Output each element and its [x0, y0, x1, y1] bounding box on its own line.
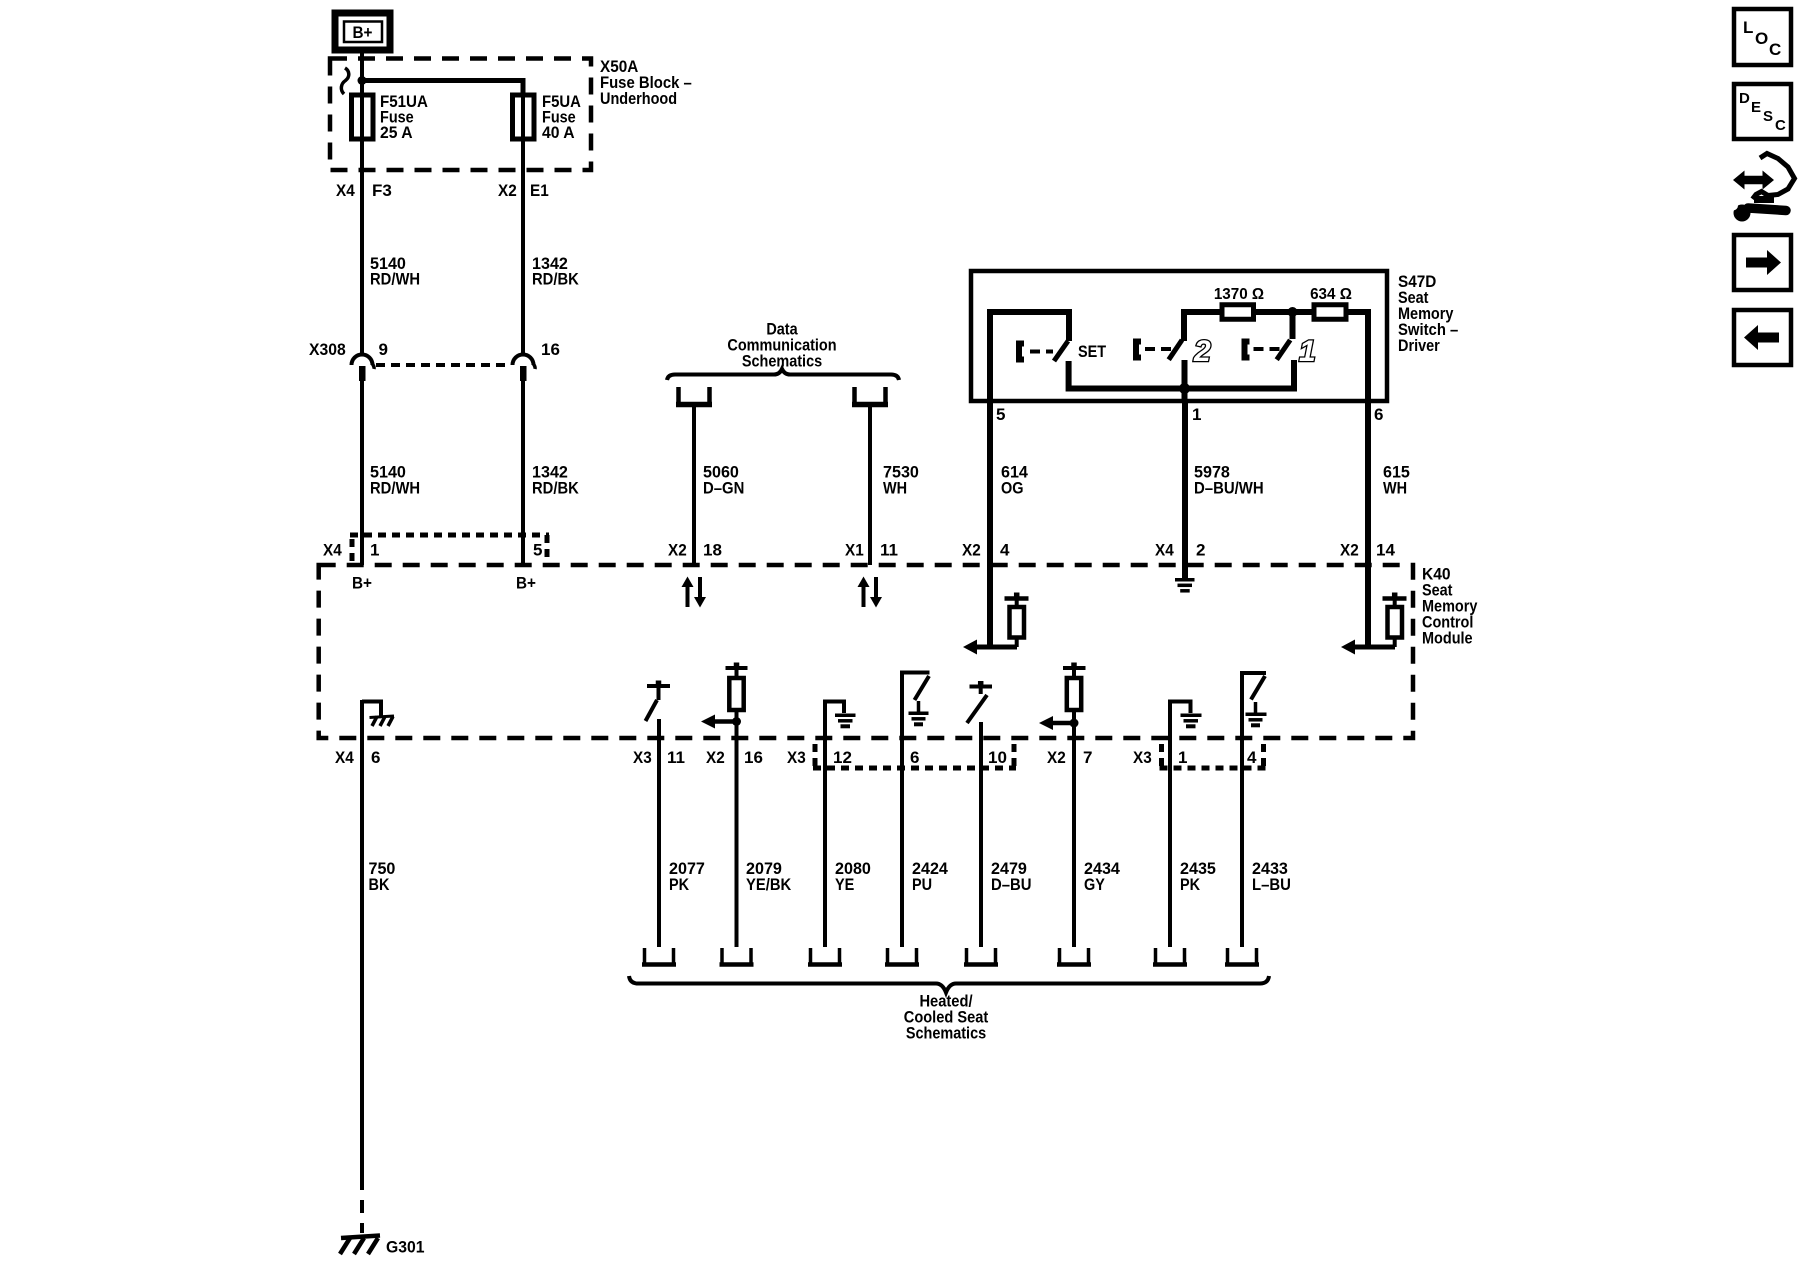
fuse block X50A dashed box: [330, 59, 591, 171]
svg-text:X3: X3: [633, 748, 652, 767]
svg-text:RD/BK: RD/BK: [532, 479, 579, 498]
battery positive B+ symbol: [335, 13, 390, 50]
wire 7530 WH: [870, 405, 919, 565]
svg-text:1: 1: [370, 541, 379, 560]
bottom pin labels X2 16: [706, 748, 763, 767]
svg-text:RD/BK: RD/BK: [532, 270, 579, 289]
dashed connector link X308: [376, 363, 510, 367]
off-page connector 2077: [642, 948, 676, 965]
svg-text:BK: BK: [369, 875, 391, 894]
svg-text:S: S: [1763, 108, 1773, 125]
wire 5140 RD/WH lower: [362, 381, 420, 565]
resistor 1370 ohm: [1214, 286, 1264, 319]
module internal ground X4-6: [362, 700, 394, 740]
svg-text:4: 4: [1000, 541, 1010, 560]
svg-text:D–GN: D–GN: [703, 479, 744, 498]
svg-text:Module: Module: [1422, 629, 1473, 648]
K40 seat memory control module dashed box: [319, 565, 1413, 738]
svg-text:X1: X1: [845, 541, 864, 560]
svg-text:4: 4: [1247, 748, 1257, 767]
pin labels X1 11: [845, 541, 898, 560]
wire 5978 D-BU/WH: [1185, 401, 1264, 565]
switch 1 actuator bracket: [1245, 342, 1250, 358]
fusible hook symbol: [341, 68, 348, 94]
wire 2080 YE: [825, 740, 871, 947]
wire B+ to fuse F51UA: [360, 50, 364, 96]
dashed wire to G301: [360, 1177, 364, 1233]
svg-text:1: 1: [1299, 335, 1316, 368]
svg-text:14: 14: [1376, 541, 1395, 560]
svg-text:PK: PK: [669, 875, 690, 894]
svg-text:RD/WH: RD/WH: [370, 270, 420, 289]
junction node switch bus to pin 1: [1179, 383, 1190, 394]
svg-text:6: 6: [910, 748, 919, 767]
svg-text:18: 18: [703, 541, 722, 560]
svg-text:X2: X2: [962, 541, 981, 560]
svg-text:B+: B+: [352, 574, 372, 593]
wire 2479 D-BU: [981, 740, 1032, 947]
svg-text:E: E: [1751, 99, 1761, 116]
svg-text:G301: G301: [386, 1238, 425, 1257]
svg-text:YE/BK: YE/BK: [746, 875, 792, 894]
seat memory switch S47D box: [971, 271, 1387, 401]
switch 2 lower contact: [1182, 360, 1188, 401]
brace data communication: [667, 369, 899, 380]
label Heated Cooled Seat Schematics: [904, 992, 989, 1043]
module internal ground X3-1: [1170, 700, 1202, 741]
svg-text:16: 16: [744, 748, 763, 767]
svg-text:Underhood: Underhood: [600, 89, 677, 108]
connector X308 pin 9: [352, 340, 388, 381]
svg-text:1: 1: [1192, 405, 1201, 424]
pin labels X4 F3: [336, 181, 392, 200]
svg-text:11: 11: [667, 748, 685, 767]
label S47D Seat Memory Switch - Driver: [1398, 272, 1458, 355]
svg-text:X4: X4: [1155, 541, 1174, 560]
bidirectional arrows at X1-11: [858, 577, 883, 608]
connector X3 dotted group bottom right: [1160, 744, 1266, 768]
pin labels X2 18: [668, 541, 722, 560]
label K40 Seat Memory Control Module: [1422, 565, 1478, 648]
bidirectional arrows at X2-18: [682, 577, 707, 608]
svg-text:O: O: [1755, 29, 1768, 48]
pin labels X4 2: [1155, 541, 1205, 560]
wire 2434 GY: [1074, 740, 1120, 947]
module switch to ground pin 6: [902, 671, 930, 741]
sidebar next arrow button: [1734, 235, 1791, 290]
wire 1342 RD/BK upper: [523, 144, 579, 354]
svg-text:16: 16: [541, 340, 560, 359]
label Data Communication Schematics: [727, 320, 836, 371]
off-page connector 2079: [720, 948, 754, 965]
wire feed to fuse F5UA: [362, 81, 523, 97]
off-page connector 2433: [1225, 948, 1259, 965]
connector X3 dotted group bottom left: [813, 744, 1016, 768]
module driver output X2-4: [963, 565, 1029, 655]
wire 614 OG: [990, 401, 1028, 565]
svg-text:D: D: [1739, 90, 1750, 107]
wire 2079 YE/BK: [737, 740, 792, 947]
svg-text:25 A: 25 A: [380, 123, 413, 142]
svg-text:634 Ω: 634 Ω: [1310, 286, 1352, 303]
svg-text:L–BU: L–BU: [1252, 875, 1291, 894]
label X50A Fuse Block - Underhood: [600, 57, 692, 108]
svg-text:C: C: [1775, 117, 1786, 134]
off-page connector data wire 7530: [852, 387, 888, 405]
wire resistor rail: [1184, 312, 1368, 401]
switch 2 actuator dashes: [1145, 347, 1176, 351]
svg-text:X2: X2: [1340, 541, 1359, 560]
wire 750 BK: [362, 740, 395, 1177]
off-page connector data wire 5060: [676, 387, 712, 405]
svg-text:B+: B+: [516, 574, 536, 593]
brace heated cooled seat schematics: [629, 976, 1269, 993]
wire 5060 D-GN: [694, 405, 744, 565]
wire 2435 PK: [1170, 740, 1216, 947]
switch 2 actuator bracket: [1136, 342, 1141, 358]
bottom pin labels X3 11: [633, 748, 685, 767]
svg-text:PK: PK: [1180, 875, 1201, 894]
module switch driver pin 10: [967, 681, 992, 740]
svg-text:40 A: 40 A: [542, 123, 575, 142]
svg-text:E1: E1: [530, 181, 549, 200]
svg-text:10: 10: [988, 748, 1007, 767]
svg-text:X2: X2: [1047, 748, 1066, 767]
off-page connector 2424: [885, 948, 919, 965]
svg-text:1: 1: [1178, 748, 1187, 767]
svg-text:D–BU/WH: D–BU/WH: [1194, 479, 1264, 498]
svg-text:11: 11: [880, 541, 898, 560]
svg-text:RD/WH: RD/WH: [370, 479, 420, 498]
svg-text:YE: YE: [835, 875, 854, 894]
wire 5140 RD/WH upper: [362, 144, 420, 354]
pin labels X2 E1: [498, 181, 549, 200]
connector X4 dotted group top: [350, 535, 549, 561]
module internal ground X3-12: [825, 700, 856, 741]
svg-text:OG: OG: [1001, 479, 1024, 498]
wire switch common bus: [1069, 360, 1294, 389]
sidebar DESC button: [1734, 84, 1791, 139]
switch 1 actuator dashes: [1254, 347, 1285, 351]
svg-text:X4: X4: [335, 748, 354, 767]
off-page connector 2435: [1153, 948, 1187, 965]
wire 1342 RD/BK lower: [523, 381, 579, 565]
off-page connector 2479: [964, 948, 998, 965]
svg-text:Driver: Driver: [1398, 336, 1440, 355]
svg-text:D–BU: D–BU: [991, 875, 1032, 894]
svg-text:6: 6: [371, 748, 380, 767]
bottom pin labels X3 1: [1133, 748, 1187, 767]
module driver output X2-14: [1341, 565, 1407, 655]
wire tap to switch 1: [1290, 312, 1296, 339]
junction node at fuse feed: [358, 76, 367, 85]
switch 2 blade: [1169, 340, 1182, 360]
svg-text:5: 5: [996, 405, 1005, 424]
svg-text:GY: GY: [1084, 875, 1105, 894]
bottom pin labels X2 7: [1047, 748, 1092, 767]
ground G301: [340, 1236, 425, 1257]
svg-text:F3: F3: [372, 181, 392, 200]
svg-text:X3: X3: [787, 748, 806, 767]
module pull-up resistor X2-7: [1039, 663, 1086, 741]
bottom pin labels X3 12: [787, 748, 852, 767]
module ground X4-2: [1175, 565, 1195, 591]
off-page connector 2434: [1057, 948, 1091, 965]
module switch to ground pin 4: [1242, 671, 1267, 740]
module pull-up resistor X2-16: [701, 663, 748, 741]
wire 2424 PU: [902, 740, 948, 947]
fuse F51UA 25A: [352, 92, 428, 144]
svg-text:PU: PU: [912, 875, 932, 894]
svg-text:WH: WH: [883, 479, 907, 498]
svg-text:6: 6: [1374, 405, 1383, 424]
sidebar LOC button: [1734, 9, 1791, 65]
svg-text:7: 7: [1083, 748, 1092, 767]
svg-text:5: 5: [533, 541, 542, 560]
svg-text:X4: X4: [336, 181, 355, 200]
svg-text:1370 Ω: 1370 Ω: [1214, 286, 1264, 303]
wire 2433 L-BU: [1242, 740, 1291, 947]
svg-text:X2: X2: [668, 541, 687, 560]
pin labels X2 4: [962, 541, 1010, 560]
svg-text:2: 2: [1196, 541, 1205, 560]
svg-text:WH: WH: [1383, 479, 1407, 498]
resistor 634 ohm: [1310, 286, 1352, 319]
svg-text:B+: B+: [353, 23, 373, 42]
bottom pin labels X4 6: [335, 748, 380, 767]
fuse F5UA 40A: [513, 92, 581, 144]
svg-text:C: C: [1769, 40, 1781, 59]
svg-text:X2: X2: [498, 181, 517, 200]
svg-text:2: 2: [1193, 335, 1211, 368]
svg-text:12: 12: [833, 748, 852, 767]
svg-text:9: 9: [379, 340, 388, 359]
sidebar back arrow button: [1734, 310, 1791, 365]
svg-text:X4: X4: [323, 541, 342, 560]
svg-text:X308: X308: [309, 340, 346, 359]
junction node resistor tap: [1288, 307, 1298, 317]
module switch driver X3-11: [646, 681, 671, 741]
svg-text:Schematics: Schematics: [906, 1024, 986, 1043]
wire 615 WH: [1368, 401, 1410, 565]
wire 2077 PK: [659, 740, 705, 947]
svg-text:X2: X2: [706, 748, 725, 767]
switch SET actuator dashes: [1030, 350, 1053, 354]
switch SET actuator bracket: [1019, 344, 1024, 360]
sidebar diagnostic icon: [1728, 154, 1795, 222]
pin labels X2 14: [1340, 541, 1395, 560]
switch 1 blade: [1277, 340, 1291, 360]
svg-text:X3: X3: [1133, 748, 1152, 767]
svg-text:SET: SET: [1078, 342, 1107, 361]
svg-text:L: L: [1743, 18, 1753, 37]
wire switch common to pin 5: [990, 312, 1069, 401]
switch SET blade: [1054, 341, 1068, 361]
off-page connector 2080: [808, 948, 842, 965]
connector X308 pin 16: [513, 340, 560, 381]
